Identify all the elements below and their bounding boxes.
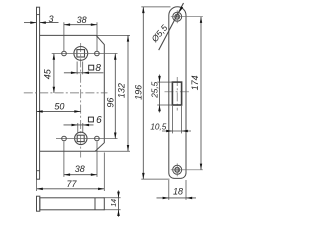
- dim 14 extension lines: [103, 197, 120, 199]
- square symbol 6: [88, 117, 93, 122]
- dim 45 line: [53, 54, 55, 93]
- bottom screw centerlines: [171, 169, 203, 171]
- dim 132 line: [127, 35, 129, 151]
- bottom-left fixing hole: [62, 136, 67, 141]
- top screw slots: [175, 14, 177, 19]
- dim 6 arrows: [72, 124, 90, 127]
- dim 38 bottom extension lines: [63, 142, 65, 177]
- dim 3 arrows: [30, 21, 46, 24]
- body horizontal centerline (dash-dot): [24, 92, 108, 94]
- dim 25.5 line: [159, 75, 161, 113]
- bottom view end cap line: [94, 198, 96, 210]
- bottom follower horizontal centerline: [56, 138, 118, 140]
- faceplate horizontal centerline: [165, 91, 191, 93]
- diameter 5.5 leader arrow: [179, 6, 183, 12]
- dim 45 arrows: [53, 54, 56, 93]
- bottom follower circle: [75, 132, 87, 144]
- dim 6 line: [64, 124, 94, 126]
- top screw outer circle: [173, 12, 182, 21]
- svg-text:45: 45: [43, 68, 53, 79]
- bottom screw inner circle: [175, 167, 180, 172]
- svg-text:96: 96: [106, 98, 116, 108]
- bottom view body: [40, 198, 105, 210]
- strip bottom tick: [37, 170, 40, 172]
- dim 77 line: [37, 188, 105, 190]
- svg-text:14: 14: [111, 199, 118, 207]
- dim 50 arrows: [37, 110, 81, 113]
- svg-text:38: 38: [77, 15, 87, 25]
- dim 38 bottom arrows: [64, 173, 97, 176]
- latch cutout: [172, 82, 181, 105]
- svg-text:25,5: 25,5: [151, 81, 160, 98]
- bottom screw outer circle: [173, 165, 182, 174]
- top-left fixing hole: [62, 51, 67, 56]
- lock body outline: [40, 35, 105, 151]
- dim 38 top extension lines: [63, 22, 65, 51]
- dim 8 arrows: [71, 72, 89, 75]
- svg-text:196: 196: [133, 85, 143, 100]
- dim 196 arrows: [142, 7, 145, 179]
- bottom view faceplate section: [37, 196, 40, 211]
- svg-text:77: 77: [66, 179, 77, 189]
- body vertical centerline (dashed): [80, 43, 82, 158]
- top follower horizontal centerline: [52, 53, 118, 55]
- dim 18 arrows: [163, 197, 193, 200]
- dim 10.5 arrows: [166, 130, 188, 132]
- top follower circle: [74, 47, 88, 61]
- dim 132 extension lines: [96, 34, 130, 36]
- dim 14 line: [118, 190, 120, 216]
- dim 196 line: [142, 7, 144, 179]
- dim 10.5 line: [162, 130, 191, 132]
- dim 25.5 arrows: [158, 76, 161, 111]
- svg-text:Ø5,5: Ø5,5: [149, 23, 170, 45]
- faceplate front outline: [169, 7, 186, 179]
- dim 25.5 extension lines: [157, 81, 173, 83]
- dim 77 arrows: [37, 188, 105, 191]
- svg-text:10,5: 10,5: [150, 122, 166, 131]
- bottom follower square hole 6mm: [77, 135, 84, 141]
- strip top tick: [37, 14, 40, 16]
- top screw centerlines: [171, 16, 203, 18]
- dim 132 arrows: [127, 35, 129, 151]
- dim 196 extension lines: [141, 6, 170, 8]
- svg-text:174: 174: [190, 75, 200, 90]
- dim 96 arrows: [114, 54, 117, 139]
- dim 3 lines: [24, 22, 37, 24]
- diameter 5.5 leader line: [159, 3, 184, 50]
- dim 50 line: [37, 110, 81, 112]
- top follower square hole 8mm: [77, 50, 85, 57]
- dim 8 extension lines: [76, 62, 78, 75]
- svg-text:6: 6: [96, 115, 102, 126]
- faceplate vertical centerline: [176, 77, 178, 111]
- svg-text:18: 18: [173, 186, 183, 196]
- bottom-right fixing hole: [95, 136, 100, 141]
- dim 18 extension lines: [168, 180, 170, 200]
- dim 38 top line: [64, 24, 97, 26]
- dim 174 arrows: [200, 17, 202, 170]
- dim 18 line: [157, 197, 197, 199]
- svg-text:132: 132: [117, 83, 127, 98]
- top-right fixing hole: [95, 51, 100, 56]
- dim 10.5 extension lines: [171, 106, 173, 133]
- svg-text:38: 38: [75, 164, 85, 174]
- dim 77 extension lines: [36, 179, 38, 191]
- dim 8 line: [64, 72, 104, 74]
- dim 174 line: [200, 17, 202, 170]
- dim 38 top arrows: [64, 23, 97, 26]
- top screw inner circle: [175, 14, 180, 19]
- dim 96 line: [114, 54, 116, 139]
- bottom screw slots: [175, 167, 177, 172]
- dim 38 bottom line: [64, 174, 97, 176]
- dim 14 arrows: [117, 192, 120, 216]
- svg-text:3: 3: [48, 14, 53, 24]
- square symbol 8: [89, 65, 94, 70]
- svg-text:50: 50: [54, 101, 64, 111]
- dim 6 extension lines: [77, 123, 79, 133]
- faceplate strip (side view): [37, 7, 40, 179]
- svg-text:8: 8: [95, 63, 101, 74]
